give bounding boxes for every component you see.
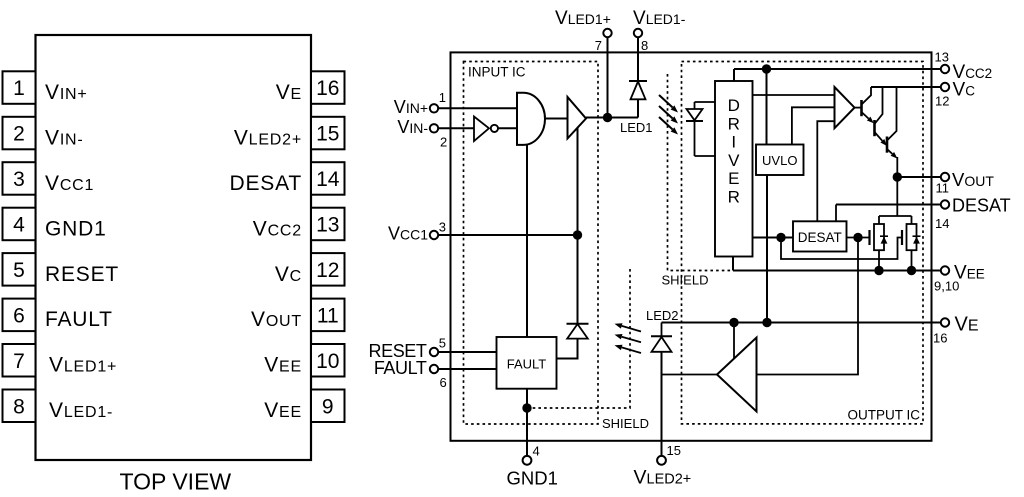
svg-text:VCC1: VCC1	[388, 224, 428, 244]
pin number 9,10	[934, 279, 959, 294]
label VOUT	[952, 169, 994, 190]
pin 12 box	[311, 253, 345, 286]
buffer U1C	[568, 97, 587, 139]
wire RESET	[438, 351, 496, 353]
M2 body diode	[913, 236, 921, 243]
svg-text:VIN-: VIN-	[397, 117, 428, 137]
svg-text:6: 6	[440, 375, 447, 390]
pin 6 label FAULT	[45, 308, 113, 331]
photodiode PD1	[686, 102, 703, 156]
LED1 cathode bar	[629, 80, 647, 82]
pin number 16	[933, 331, 947, 346]
label GND1	[507, 467, 558, 488]
LED2 light arrow 1	[615, 323, 642, 331]
LED1 light arrow 3	[659, 117, 678, 135]
wire drain split	[879, 216, 912, 224]
comparator input 2 from UVLO	[792, 107, 835, 144]
svg-text:D: D	[728, 96, 740, 115]
node shield tap	[522, 403, 531, 412]
LED1 light arrow 1	[659, 95, 678, 113]
wire buffer to fault diode	[577, 128, 579, 324]
svg-text:12: 12	[935, 94, 949, 109]
svg-text:9,10: 9,10	[934, 279, 959, 294]
pin 13 number	[316, 214, 339, 237]
pin 14 label DESAT	[230, 172, 302, 195]
svg-text:VIN+: VIN+	[394, 97, 428, 117]
svg-text:5: 5	[439, 336, 446, 351]
pin VOUT terminal	[941, 173, 949, 181]
svg-text:VE: VE	[955, 314, 979, 336]
svg-text:LED2: LED2	[646, 308, 679, 323]
pin 1 label VIN+	[45, 81, 88, 104]
pin 6 box	[3, 299, 36, 332]
svg-text:16: 16	[316, 77, 339, 100]
wire VOUT rail	[897, 176, 941, 178]
wire VIN+ to AND gate	[438, 107, 517, 109]
pin 1 number	[13, 77, 25, 100]
FAULT block	[497, 337, 557, 389]
svg-text:8: 8	[13, 395, 25, 418]
UVLO block	[756, 145, 804, 176]
pin number 12	[935, 94, 949, 109]
pin number 6	[440, 375, 447, 390]
pin 10 number	[316, 350, 339, 373]
wire AND to buffer	[545, 118, 568, 120]
svg-text:7: 7	[13, 350, 25, 373]
pin number 5	[439, 336, 446, 351]
wire DRIVER bottom to VEE rail	[732, 257, 734, 271]
pin VE terminal	[941, 318, 949, 326]
svg-text:VLED1-: VLED1-	[633, 8, 686, 29]
DESAT block label	[798, 230, 842, 245]
wire UVLO top feed	[766, 69, 768, 145]
UVLO block label	[762, 153, 797, 168]
wire VE rail	[662, 322, 941, 324]
pin 2 number	[13, 123, 25, 146]
svg-text:VLED2+: VLED2+	[634, 466, 692, 488]
wire LED2 cathode	[661, 323, 663, 337]
INPUT IC dashed box	[464, 62, 599, 425]
pin 8 label VLED1-	[49, 399, 113, 422]
svg-text:2: 2	[440, 135, 447, 150]
label VLED2+	[634, 466, 692, 488]
pin 12 number	[316, 259, 339, 282]
wire comparator to Q1 base	[855, 107, 862, 109]
wire M2 gate loop	[781, 238, 901, 260]
pin 7 box	[3, 344, 36, 377]
pin 9 number	[322, 395, 334, 418]
pin 3 box	[3, 162, 36, 195]
pin 9 box	[311, 390, 345, 423]
comparator A1	[835, 87, 855, 128]
wire FAULT block to GND1	[526, 389, 528, 456]
pin RESET terminal	[430, 348, 438, 356]
pin 4 label GND1	[45, 217, 107, 240]
wire pin8 to LED1	[637, 37, 639, 81]
pin 16 box	[311, 71, 345, 104]
label VEE	[954, 262, 985, 283]
FAULT block label	[507, 357, 547, 372]
pin number 4	[533, 444, 540, 459]
wire AND gate to FAULT block	[526, 145, 528, 337]
pin number 2	[440, 135, 447, 150]
fault diode D2	[567, 324, 588, 339]
svg-text:15: 15	[667, 443, 681, 458]
pin number 1	[439, 90, 446, 105]
pin 15 label VLED2+	[234, 126, 302, 149]
pin 15 box	[311, 117, 345, 150]
comparator input 3 from DESAT	[817, 121, 834, 221]
svg-text:I: I	[731, 133, 736, 152]
pin FAULT terminal	[430, 365, 438, 373]
input shield trace	[527, 268, 630, 408]
svg-text:UVLO: UVLO	[762, 153, 797, 168]
wire DESAT pin line	[836, 204, 941, 206]
svg-text:FAULT: FAULT	[374, 358, 427, 378]
svg-text:8: 8	[641, 38, 648, 53]
MOSFET M2 body	[907, 224, 917, 250]
pin 7 number	[13, 350, 25, 373]
wire VC rail	[871, 86, 941, 88]
label VC	[953, 80, 976, 101]
svg-text:VOUT: VOUT	[952, 169, 994, 190]
wire VCC2 rail	[734, 68, 941, 70]
svg-text:2: 2	[13, 123, 25, 146]
Q3 emitter	[887, 149, 898, 159]
svg-text:4: 4	[533, 444, 540, 459]
wire UVLO to VE rail	[766, 175, 768, 323]
pin 16 label VE	[276, 81, 302, 104]
pin number 3	[439, 220, 446, 235]
wire DESAT block to M1 gate	[847, 237, 869, 239]
pin 3 number	[13, 168, 25, 191]
label VLED1+	[555, 8, 611, 29]
main diagram box	[451, 52, 932, 440]
pin number 8	[641, 38, 648, 53]
MOSFET M1 body	[874, 224, 884, 250]
fault diode cathode bar	[567, 323, 589, 325]
svg-text:13: 13	[316, 214, 339, 237]
pin 15 number	[316, 123, 339, 146]
pin DESAT terminal	[941, 200, 949, 208]
LED2 cathode bar	[651, 335, 672, 337]
node driver-desat junction	[776, 233, 785, 242]
svg-text:14: 14	[316, 168, 340, 191]
pin VLED2+ terminal	[657, 456, 666, 465]
wire buffer to LED2 anode	[662, 374, 718, 376]
pin GND1 terminal	[523, 456, 532, 465]
node LED1 drive junction	[603, 113, 612, 122]
node VCC1 junction	[573, 230, 582, 239]
INPUT IC label	[468, 65, 526, 80]
wire FAULT	[438, 368, 496, 370]
AND gate U1B	[517, 93, 545, 145]
node M1 source junction	[874, 266, 883, 275]
transistor Q3 base bar	[886, 137, 889, 153]
pin 14 box	[311, 162, 345, 195]
svg-text:R: R	[728, 188, 740, 207]
node VCC2-UVLO junction	[762, 64, 771, 73]
wire LED1 anode to node	[637, 99, 639, 117]
Q1 emitter	[862, 112, 874, 123]
label DESAT	[952, 196, 1011, 216]
pin 10 label VEE	[264, 354, 302, 377]
inverter U1A	[474, 117, 489, 142]
label VIN-	[397, 117, 428, 137]
pin VCC2 terminal	[941, 65, 949, 73]
wire DESAT stub to block	[835, 205, 837, 222]
label FAULT	[374, 358, 427, 378]
wire LED2 anode to pin 15	[661, 352, 663, 456]
pin 2 box	[3, 117, 36, 150]
wire Q3 emitter to VOUT node	[896, 157, 898, 177]
transistor Q1 base bar	[860, 100, 863, 116]
svg-text:SHIELD: SHIELD	[662, 273, 709, 288]
svg-text:E: E	[728, 169, 739, 188]
svg-text:16: 16	[933, 331, 947, 346]
pin VLED1- terminal	[634, 29, 642, 37]
pin number 11	[936, 181, 950, 196]
pin 13 box	[311, 208, 345, 241]
wire buffer output to LED1 node	[586, 117, 638, 119]
pin VEE terminal	[941, 266, 949, 274]
wire VEE rail	[733, 270, 941, 272]
svg-text:4: 4	[13, 214, 25, 237]
svg-text:9: 9	[322, 395, 334, 418]
label VLED1-	[633, 8, 686, 29]
pin 14 number	[316, 168, 340, 191]
wire fault diode to FAULT block	[557, 339, 578, 359]
pin 11 box	[311, 299, 345, 332]
wire DRIVER to DESAT block	[753, 237, 794, 239]
svg-text:DESAT: DESAT	[952, 196, 1011, 216]
svg-text:14: 14	[935, 216, 949, 231]
LED2 light arrow 3	[615, 345, 642, 353]
DESAT block	[793, 221, 847, 251]
svg-text:VLED1+: VLED1+	[555, 8, 611, 29]
pin number 14	[935, 216, 949, 231]
svg-text:OUTPUT IC: OUTPUT IC	[847, 408, 920, 423]
DRIVER block label	[728, 96, 740, 207]
svg-text:5: 5	[13, 259, 25, 282]
svg-text:10: 10	[316, 350, 339, 373]
LED1 label	[620, 120, 653, 135]
svg-text:6: 6	[13, 304, 25, 327]
svg-text:INPUT IC: INPUT IC	[468, 65, 526, 80]
wire PD1 cathode to DRIVER	[695, 101, 716, 103]
svg-text:15: 15	[316, 123, 339, 146]
inverter bubble	[491, 125, 498, 132]
pin VIN- terminal	[430, 124, 438, 132]
OUTPUT IC label	[847, 408, 920, 423]
LED2 light arrow 2	[615, 334, 642, 342]
node M2 source junction	[907, 266, 916, 275]
svg-text:GND1: GND1	[45, 217, 107, 240]
MOSFET M2 gate bar	[901, 230, 903, 245]
svg-text:11: 11	[317, 304, 339, 327]
wire VCC2 stub to DRIVER	[733, 69, 735, 81]
transistor Q2 base bar	[873, 120, 876, 136]
wire feedback to buffer	[757, 238, 859, 375]
DRIVER block	[715, 81, 753, 257]
svg-text:DESAT: DESAT	[230, 172, 302, 195]
svg-text:GND1: GND1	[507, 467, 558, 488]
LED1 light arrow 2	[659, 106, 678, 124]
MOSFET M1 gate bar	[868, 230, 870, 245]
LED2 diode	[652, 337, 672, 352]
svg-text:DESAT: DESAT	[798, 230, 842, 245]
pin VIN+ terminal	[430, 104, 438, 112]
Q2 emitter	[875, 132, 888, 146]
label VCC2	[953, 62, 993, 83]
OUTPUT IC dashed box	[682, 62, 924, 424]
svg-text:11: 11	[936, 181, 950, 196]
pin VC terminal	[941, 83, 949, 91]
pin 5 number	[13, 259, 25, 282]
wire VCC1 rail	[438, 234, 577, 236]
pin 4 box	[3, 208, 36, 241]
pin 10 box	[311, 344, 345, 377]
LED2 label	[646, 308, 679, 323]
pin 16 number	[316, 77, 339, 100]
svg-text:FAULT: FAULT	[507, 357, 547, 372]
pin 11 label VOUT	[251, 308, 302, 331]
output SHIELD label	[662, 273, 709, 288]
pin 9 label VEE	[264, 399, 302, 422]
pin 4 number	[13, 214, 25, 237]
buffer supply tap	[733, 323, 735, 359]
svg-text:FAULT: FAULT	[45, 308, 113, 331]
label VIN+	[394, 97, 428, 117]
pin 8 box	[3, 390, 36, 423]
node desat-feedback junction	[853, 233, 862, 242]
node VOUT junction	[893, 172, 902, 181]
svg-text:SHIELD: SHIELD	[602, 416, 649, 431]
svg-text:3: 3	[439, 220, 446, 235]
pin 7 label VLED1+	[49, 354, 117, 377]
svg-text:1: 1	[439, 90, 446, 105]
wire M2 source to VEE	[911, 250, 913, 270]
svg-text:12: 12	[316, 259, 339, 282]
pin VCC1 terminal	[430, 231, 438, 239]
output shield trace	[668, 74, 734, 271]
svg-text:TOP VIEW: TOP VIEW	[120, 469, 232, 495]
pin 3 label VCC1	[45, 172, 94, 195]
wire VOUT to output MOSFET drains	[896, 177, 898, 216]
svg-text:3: 3	[13, 168, 25, 191]
pin 6 number	[13, 304, 25, 327]
wire pin7 to node	[607, 37, 609, 117]
input SHIELD label	[602, 416, 649, 431]
TOP VIEW caption	[120, 469, 232, 495]
pin VLED1+ terminal	[603, 29, 611, 37]
svg-text:RESET: RESET	[45, 263, 119, 286]
pin number 15	[667, 443, 681, 458]
svg-text:13: 13	[935, 50, 949, 65]
pin number 13	[935, 50, 949, 65]
Q1 collector	[862, 87, 872, 105]
Q2 collector	[875, 87, 883, 124]
pin 11 number	[317, 304, 339, 327]
wire VIN- to inverter	[438, 127, 474, 129]
svg-text:V: V	[728, 151, 740, 170]
svg-text:7: 7	[595, 38, 602, 53]
wire M1 source to VEE	[878, 250, 880, 270]
Q3 collector	[887, 87, 897, 141]
node UVLO-VE junction	[762, 318, 771, 327]
wire inverter to AND gate	[498, 127, 518, 129]
pin 2 label VIN-	[45, 126, 84, 149]
comparator input 1	[753, 94, 835, 96]
svg-text:R: R	[728, 114, 740, 133]
IC package body (TOP VIEW)	[36, 35, 312, 460]
svg-text:VC: VC	[953, 80, 976, 101]
svg-text:LED1: LED1	[620, 120, 653, 135]
pin 8 number	[13, 395, 25, 418]
pin 12 label VC	[275, 263, 302, 286]
LED1 diode	[631, 82, 646, 100]
node buffer supply junction	[729, 318, 738, 327]
pin 5 label RESET	[45, 263, 119, 286]
label RESET	[368, 341, 426, 361]
svg-text:1: 1	[13, 77, 25, 100]
pin 1 box	[3, 71, 36, 104]
pin number 7	[595, 38, 602, 53]
pin 13 label VCC2	[253, 217, 302, 240]
pin 5 box	[3, 253, 36, 286]
feedback buffer A2	[717, 338, 757, 412]
wire PD1 anode to DRIVER	[695, 155, 716, 157]
M1 body diode	[880, 236, 888, 243]
label VCC1	[388, 224, 428, 244]
label VE	[955, 314, 979, 336]
